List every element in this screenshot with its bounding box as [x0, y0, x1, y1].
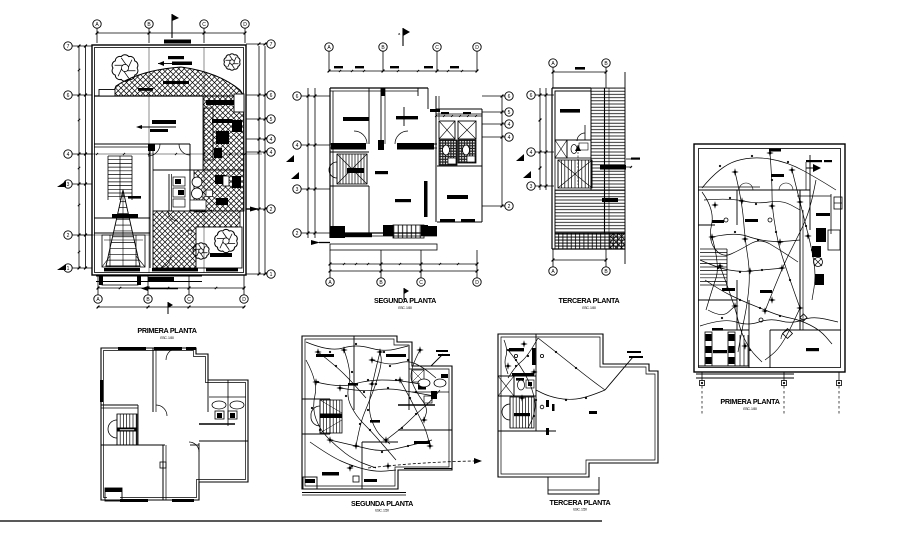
svg-text:PRIMERA PLANTA: PRIMERA PLANTA — [720, 397, 779, 406]
plan 1 tree 3 — [215, 229, 238, 252]
plan 3 left dimension lines and bubbles — [539, 88, 541, 190]
plan 1 kitchen counters — [206, 100, 242, 105]
plan 1 terrace white room — [196, 227, 242, 268]
plan 1 closet frame bottom-left — [102, 235, 145, 267]
plan 6 small door arcs — [354, 410, 365, 421]
plan 3 stairs — [557, 160, 559, 188]
plan 2 bottom corner posts — [330, 226, 345, 238]
plan 3 outer walls — [552, 87, 591, 89]
svg-text:D: D — [242, 297, 246, 303]
plan 1 gridline 2 arrowhead — [250, 207, 259, 212]
plan 5 interior walls — [152, 348, 154, 412]
svg-text:D: D — [475, 45, 479, 51]
plan 1 entry slab band — [96, 275, 202, 277]
plan 4 room label dashes — [769, 149, 781, 152]
plan 2 left dimension lines and bubbles — [307, 88, 309, 238]
svg-text:ESC. 1:50: ESC. 1:50 — [398, 306, 412, 310]
svg-text:2: 2 — [67, 233, 70, 239]
plan 1 patio hatch band under wavy roof edge — [112, 67, 244, 96]
plan 4 wiring dots — [719, 165, 721, 167]
plan 2 hall door arcs — [354, 131, 367, 144]
plan 7 bath fixtures — [518, 380, 525, 390]
plan 4 garage closet columns — [705, 332, 712, 366]
sheet bottom border line — [0, 520, 602, 522]
svg-text:D: D — [475, 280, 479, 286]
plan 5 bottom-left box — [105, 488, 122, 501]
svg-text:4: 4 — [508, 135, 511, 141]
plan 5 stairs — [116, 414, 118, 445]
plan 7 wiring curves — [538, 338, 605, 390]
svg-text:4: 4 — [508, 122, 511, 128]
svg-text:PRIMERA PLANTA: PRIMERA PLANTA — [137, 326, 196, 335]
plan 4 top wall door arcs — [739, 183, 746, 190]
plan 1 north arrow — [171, 14, 173, 38]
plan 1 outer walls — [92, 45, 246, 275]
plan 1 wall at patio south — [94, 95, 203, 97]
plan 3 small bath — [567, 140, 591, 158]
plan 2 top dimension line — [329, 70, 477, 72]
svg-text:3: 3 — [296, 187, 299, 193]
plan 2 bottom north mark — [403, 288, 405, 300]
plan 3 room — [555, 91, 591, 140]
svg-text:7: 7 — [67, 44, 70, 50]
plan 4 patio door — [781, 330, 790, 339]
plan 4 wiring curves — [702, 158, 836, 190]
plan 4 stairs upper — [700, 248, 727, 250]
plan 6 stairs — [319, 400, 321, 433]
plan 7 skylight box — [498, 376, 514, 396]
svg-text:ESC. 1:50: ESC. 1:50 — [573, 508, 587, 512]
svg-text:2: 2 — [508, 204, 511, 210]
plan 2 bathroom top dim — [436, 115, 482, 117]
svg-text:1: 1 — [270, 272, 273, 278]
plan 7 room label dashes — [509, 348, 524, 351]
svg-text:ESC. 1:50: ESC. 1:50 — [375, 509, 389, 513]
plan 1 door arcs — [148, 144, 160, 156]
plan 1 left dimension lines and bubbles — [78, 46, 80, 268]
svg-text:SEGUNDA PLANTA: SEGUNDA PLANTA — [374, 296, 436, 305]
plan 2 left arrowhead — [311, 240, 320, 245]
svg-text:4: 4 — [67, 152, 70, 158]
plan 1 room label dashes — [168, 56, 184, 59]
plan 6 interior walls — [353, 336, 355, 398]
plan 1 bath fixtures — [168, 174, 170, 211]
svg-text:C: C — [435, 45, 439, 51]
plan 1 bottom patio hatch — [153, 211, 240, 268]
plan 1 cone stair — [106, 190, 140, 266]
plan 4 ceiling lights — [734, 171, 736, 173]
plan 6 S-arrow top right — [431, 354, 443, 366]
svg-text:2: 2 — [296, 231, 299, 237]
plan 5 small square — [160, 462, 166, 468]
plan 2 balcony slab — [330, 244, 437, 250]
svg-text:7: 7 — [270, 42, 273, 48]
svg-text:4: 4 — [530, 150, 533, 156]
plan 1 primera planta: top grid bubbles A-D — [93, 20, 101, 28]
svg-text:5: 5 — [508, 110, 511, 116]
plan 1 bath walls — [153, 169, 244, 171]
svg-text:4: 4 — [270, 150, 273, 156]
plan 2 kitchen lower walls — [368, 186, 370, 233]
plan 7 interior walls — [535, 334, 537, 431]
svg-text:D: D — [243, 22, 247, 28]
plan 6 bottom slab — [302, 492, 406, 494]
plan 5 outer wall outline — [101, 348, 248, 500]
plan 6 room label dashes — [316, 354, 334, 357]
plan 6 outer wall outline — [302, 336, 452, 489]
plan 4 kitchen fixtures — [816, 228, 826, 242]
plan 2 bottom vent grill — [393, 225, 424, 238]
plan 1 top dimension line — [97, 32, 245, 34]
plan 7 outer wall outline — [498, 334, 658, 477]
plan 2 stairs — [336, 154, 338, 184]
svg-text:2: 2 — [270, 207, 273, 213]
plan 3 stair arrow — [577, 145, 579, 185]
plan 6 bathroom fixtures — [418, 379, 430, 387]
plan 1 interior wall y144 — [94, 143, 190, 145]
plan 4 utility right wall — [809, 155, 811, 230]
plan 6 wing bottom sill — [404, 468, 452, 470]
svg-text:TERCERA PLANTA: TERCERA PLANTA — [559, 296, 620, 305]
svg-text:3: 3 — [67, 182, 70, 188]
plan 1 bottom dimension lines and bubbles — [97, 287, 245, 289]
svg-text:ESC. 1:50: ESC. 1:50 — [743, 407, 757, 411]
plan 2 right wing walls — [436, 108, 482, 110]
svg-text:TERCERA PLANTA: TERCERA PLANTA — [550, 498, 611, 507]
svg-text:4: 4 — [270, 137, 273, 143]
plan 4 terrace slab band — [696, 373, 794, 375]
plan 7 wall fill bars — [532, 348, 536, 365]
plan 3 bottom bubbles — [549, 267, 557, 275]
plan 2 interior walls — [330, 143, 366, 145]
svg-text:ESC. 1:50: ESC. 1:50 — [160, 336, 174, 340]
plan 2 outer walls — [330, 87, 428, 89]
plan 6 wiring dots — [329, 351, 331, 353]
plan 3 roof hatch upper — [591, 88, 625, 190]
svg-text:C: C — [187, 297, 191, 303]
plan 1 thin gridlines through building — [148, 47, 150, 273]
plan 3 left section triangles — [516, 154, 524, 161]
plan 4 top-right arrow symbol — [813, 164, 821, 172]
plan 6 ceiling lights — [317, 351, 319, 353]
plan 1 central vertical wall — [149, 147, 151, 268]
plan 3 roof hatch lower — [555, 190, 625, 233]
svg-text:3: 3 — [530, 184, 533, 190]
plan 2 left section triangles — [286, 155, 294, 162]
plan 7 wiring dots — [555, 351, 557, 353]
plan 7 stairs — [509, 397, 511, 428]
plan 6 bathroom extra fixtures — [412, 370, 424, 382]
plan 5 bathroom — [208, 379, 248, 381]
plan 6 small square — [353, 476, 359, 482]
plan 1 left room divider — [94, 217, 150, 219]
svg-text:6: 6 — [530, 93, 533, 99]
plan 2 bathroom skylight boxes — [439, 121, 455, 139]
svg-text:1: 1 — [67, 266, 70, 272]
svg-text:6: 6 — [296, 94, 299, 100]
plan 6 bottom-left box — [303, 477, 317, 489]
plan 4 junction circles — [724, 218, 728, 222]
plan 1 entry arrow on dim line — [141, 286, 148, 291]
plan 2 bedroom 1 and 2 walls — [380, 88, 382, 144]
svg-text:C: C — [202, 22, 206, 28]
plan 6 homerun dashed arrow — [368, 461, 474, 468]
plan 1 stairs — [108, 155, 132, 157]
plan 7 lights — [523, 343, 525, 345]
plan 2 dining black wall — [424, 181, 428, 217]
svg-text:4: 4 — [296, 143, 299, 149]
plan 1 wall at gridline 2 — [94, 232, 150, 234]
plan 2 right dimension bubbles — [501, 96, 503, 206]
plan 1 tree 2 — [224, 54, 240, 70]
plan 3 right dims — [600, 165, 626, 170]
plan 7 S-arrow top right — [605, 357, 633, 390]
plan 4 bottom reference drops — [701, 372, 703, 381]
svg-text:SEGUNDA PLANTA: SEGUNDA PLANTA — [351, 499, 413, 508]
plan 2 north arrow — [402, 28, 404, 46]
plan 4 long horizontal wire with nodes — [700, 318, 838, 326]
svg-text:5: 5 — [270, 117, 273, 123]
plan 1 bottom north mark — [167, 302, 169, 314]
plan 1 stair label black bar — [112, 214, 138, 218]
plan 7 junction circles — [514, 354, 517, 357]
plan 5 door arcs — [153, 412, 165, 424]
plan 2 segunda planta: top grid bubbles A-D — [325, 43, 333, 51]
plan 4 electrical: outer double wall — [694, 144, 845, 372]
plan 7 small tick — [552, 404, 555, 411]
plan 1 tree 4 — [193, 243, 209, 259]
plan 4 interior walls — [736, 190, 738, 225]
plan 2 bathroom tiled floors — [439, 140, 457, 165]
svg-text:ESC. 1:50: ESC. 1:50 — [582, 306, 596, 310]
svg-text:C: C — [419, 280, 423, 286]
plan 1 bath hatch — [194, 170, 244, 211]
plan 3 roof label dash — [602, 198, 618, 202]
plan 6 wiring curves — [306, 342, 408, 350]
plan 3 skylight box — [555, 140, 567, 158]
plan 1 left section arrow markers — [57, 181, 66, 187]
plan 5 window sills — [118, 347, 146, 350]
plan 2 beds — [343, 117, 369, 121]
plan 1 entry steps — [102, 276, 138, 285]
plan 1 right patio hatch strip — [203, 96, 244, 170]
plan 1 tree 1 — [112, 55, 138, 82]
plan 2 bottom dimension lines — [330, 263, 477, 265]
plan 3 tercera planta: top grid bubbles — [549, 59, 557, 67]
plan 3 bottom brick band — [555, 233, 625, 249]
svg-text:6: 6 — [67, 93, 70, 99]
svg-text:6: 6 — [270, 93, 273, 99]
plan 3 right tall line — [624, 72, 626, 264]
plan 1 bottom sill — [104, 268, 140, 271]
svg-text:6: 6 — [508, 94, 511, 100]
plan 7 garage extension — [548, 477, 599, 494]
plan 2 window sills — [331, 143, 366, 150]
plan 1 right dimension lines and bubbles — [258, 46, 260, 274]
plan 2 hall label dashes — [375, 171, 388, 174]
plan 4 garden top wall — [698, 189, 810, 191]
